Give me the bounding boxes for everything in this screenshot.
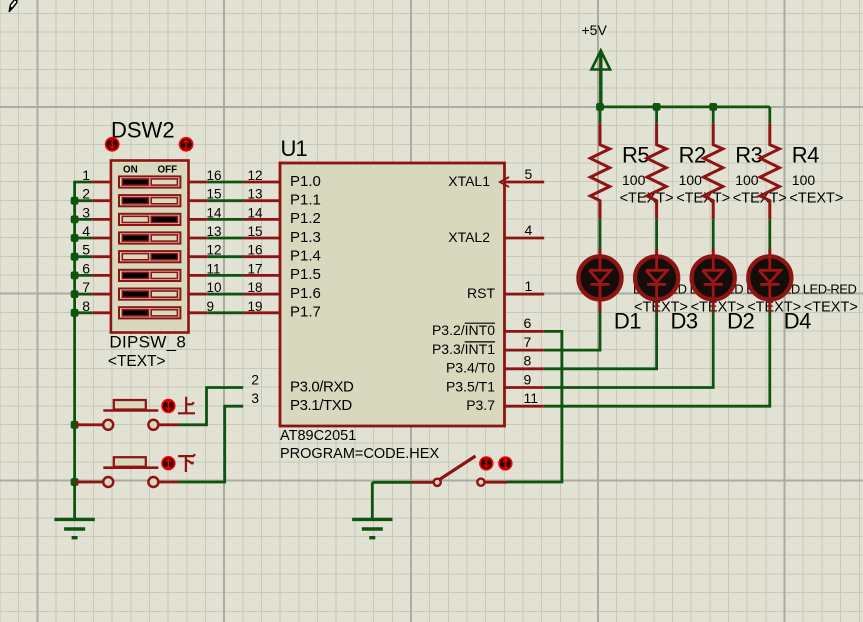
DSW2 switch element 7 [119,289,180,300]
svg-text:+5V: +5V [582,22,608,38]
svg-text:P3.4/T0: P3.4/T0 [446,360,495,376]
svg-text:P1.2: P1.2 [290,210,321,227]
U1 pin 6 stub [505,330,544,333]
wire bus to resistor R4 [768,107,771,123]
svg-text:RST: RST [467,285,495,301]
U1 pin 17 stub (P1.5) [243,274,280,277]
LED D1 diode symbol [589,256,610,300]
ground symbol left [54,519,94,537]
U1 pin 1 stub [505,293,545,296]
U1 pin 18 stub (P1.6) [243,293,280,296]
ground symbol center [352,519,392,537]
DSW2 pin 1 stub [92,181,111,184]
resistor R3 [704,123,723,219]
DSW2 switch element 3 [119,214,180,225]
U1 pin 14 stub (P1.2) [243,218,280,221]
wire power to bus [599,52,602,107]
U1 pin 13 stub (P1.1) [243,199,280,202]
button "shang (up)" right stub [159,423,179,426]
svg-text:100: 100 [792,172,816,188]
LED D1 body [578,256,621,299]
DSW2 switch element 8 [119,307,180,318]
LED D1 cathode stub [599,298,602,313]
wire bus to DSW2 pin 1 [73,181,92,184]
wire top horizontal bus [600,106,770,109]
LED D2 diode symbol [703,256,724,300]
svg-text:<TEXT>: <TEXT> [620,191,674,207]
DSW2 switch element 6 [119,270,180,281]
resistor R4 [760,123,779,219]
LED D3 cathode stub [655,298,658,313]
push button "xia (down)" terminal right [148,477,158,487]
DSW2 pin 2 stub [92,199,111,202]
wire LED D2 to U1 P3 pin [544,312,713,388]
U1 pin 15 stub (P1.3) [243,237,280,240]
LED D2 anode stub [712,249,715,258]
DSW2 switch element 2 [119,195,180,206]
svg-text:16: 16 [207,168,222,183]
svg-text:P1.1: P1.1 [290,192,321,209]
svg-text:D1: D1 [614,309,641,334]
DSW2 pin 13 stub right [189,237,208,240]
svg-text:3: 3 [82,204,90,220]
wire LED D4 to U1 P3 pin [544,312,770,406]
svg-text:7: 7 [82,279,90,295]
switch SW1 lever [440,456,476,480]
push button "xia (down)" terminal left [103,477,113,487]
LED D3 body [635,256,678,299]
DSW2 switch element 4 [119,232,180,243]
DSW2 pin 11 stub right [189,274,208,277]
svg-text:100: 100 [622,172,646,188]
DSW2 body [111,161,189,333]
svg-text:14: 14 [248,205,264,220]
DSW2 marker icon down [106,138,119,151]
push button "shang (up)" terminal left [103,420,113,430]
wire DSW2 pin 14 to U1 pin 14 [207,218,243,221]
svg-text:2: 2 [82,186,90,202]
svg-text:P1.3: P1.3 [290,229,321,246]
junction dot at x=713.2 [709,103,717,111]
DSW2 pin 12 stub right [189,255,208,258]
wire bus to DSW2 pin 7 [73,293,92,296]
push button "shang (up)" body [103,409,158,412]
button label "xia (down)" [178,454,195,472]
svg-text:12: 12 [248,168,263,183]
svg-text:P1.6: P1.6 [290,285,321,302]
wire bus to resistor R3 [712,107,715,123]
svg-text:R3: R3 [735,143,762,168]
svg-text:P1.5: P1.5 [290,266,321,283]
svg-text:12: 12 [207,243,222,258]
wire bus to DSW2 pin 3 [73,218,92,221]
LED D4 body [748,256,791,299]
LED D2 body [692,256,735,299]
DSW2 switch element 1 [119,176,180,187]
svg-text:P3.7: P3.7 [466,397,495,413]
LED D3 diode symbol [646,256,667,300]
wire bus to button "shang (up)" [75,423,103,426]
wire resistor R5 to LED [599,219,602,249]
svg-text:P3.3/INT1: P3.3/INT1 [432,341,495,357]
DSW2 pin 8 stub [92,311,111,314]
svg-text:6: 6 [82,260,90,276]
svg-text:P3.5/T1: P3.5/T1 [446,378,495,394]
svg-text:R5: R5 [622,143,649,168]
push button "shang (up)" terminal right [148,420,158,430]
LED D4 cathode stub [768,298,771,313]
svg-text:D4: D4 [784,309,811,334]
junction dot at x=600.0 [596,103,604,111]
svg-text:3: 3 [251,390,259,406]
svg-text:R4: R4 [792,143,819,168]
svg-text:13: 13 [248,187,263,202]
svg-text:ON: ON [123,165,138,176]
wire DSW2 pin 11 to U1 pin 17 [207,274,243,277]
U1 pin 12 stub (P1.0) [243,181,280,184]
svg-text:<TEXT>: <TEXT> [733,191,787,207]
svg-text:4: 4 [525,222,533,238]
svg-text:18: 18 [248,280,263,295]
svg-text:6: 6 [524,315,532,331]
cursor pencil [9,0,16,11]
svg-text:XTAL2: XTAL2 [448,229,490,245]
svg-text:11: 11 [524,390,539,406]
DSW2 pin 5 stub [92,255,111,258]
U1 pin 9 stub [505,386,544,389]
svg-text:P1.4: P1.4 [290,248,321,265]
svg-text:<TEXT>: <TEXT> [804,300,858,316]
wire LED D1 to U1 P3 pin [544,312,600,350]
svg-text:D3: D3 [671,309,698,334]
wire DSW2 pin 15 to U1 pin 13 [207,199,243,202]
switch terminal right [477,479,484,486]
svg-text:5: 5 [82,242,90,258]
button "shang (up)" marker icon [162,400,175,413]
DSW2 pin 14 stub right [189,218,208,221]
LED D4 diode symbol [759,256,780,300]
svg-text:7: 7 [524,334,532,350]
wire DSW2 pin 16 to U1 pin 12 [207,181,243,184]
wire resistor R2 to LED [655,219,658,249]
switch right stub [485,481,508,484]
wire bus to DSW2 pin 5 [73,255,92,258]
svg-text:AT89C2051: AT89C2051 [280,428,356,444]
svg-text:9: 9 [524,371,532,387]
switch marker icon down [480,457,493,470]
wire DSW2 pin 9 to U1 pin 19 [207,311,243,314]
wire DSW2 pin 10 to U1 pin 18 [207,293,243,296]
svg-text:P3.1/TXD: P3.1/TXD [290,397,352,414]
wire button shang to U1 pin 2 (P3.0/RXD) [178,388,243,425]
svg-text:P1.0: P1.0 [290,173,321,190]
button "xia (down)" marker icon [162,457,175,470]
U1 clock arrow on XTAL1 [500,177,509,187]
svg-text:1: 1 [82,167,90,183]
wire ground to switch [372,481,412,484]
op U1 AT89C2051 microcontroller body [280,163,505,426]
U1 pin 11 stub [505,405,544,408]
DSW2 pin 9 stub right [189,311,208,314]
LED D1 anode stub [599,249,602,258]
DSW2 pin 16 stub right [189,181,208,184]
wire ground drop (center) [371,482,374,519]
U1 pin 4 stub [505,237,545,240]
DSW2 pin 15 stub right [189,199,208,202]
DSW2 pin 4 stub [92,237,111,240]
wire bus to DSW2 pin 6 [73,274,92,277]
DSW2 switch element 5 [119,251,180,262]
DSW2 pin 10 stub right [189,293,208,296]
wire resistor R3 to LED [712,219,715,249]
svg-text:15: 15 [207,187,222,202]
svg-text:1: 1 [525,278,533,294]
svg-text:8: 8 [524,353,532,369]
DSW2 pin 6 stub [92,274,111,277]
svg-text:8: 8 [82,298,90,314]
svg-text:15: 15 [248,224,263,239]
DSW2 pin 3 stub [92,218,111,221]
svg-text:<TEXT>: <TEXT> [789,191,843,207]
resistor R5 [590,123,609,219]
wire bus to DSW2 pin 4 [73,237,92,240]
LED D4 anode stub [768,249,771,258]
svg-text:DIPSW_8: DIPSW_8 [109,333,186,352]
U1 pin 8 stub [505,367,544,370]
svg-text:13: 13 [207,224,222,239]
svg-text:P1.7: P1.7 [290,304,321,321]
wire DSW2 pin 12 to U1 pin 16 [207,255,243,258]
svg-text:D2: D2 [727,309,754,334]
resistor R2 [647,123,666,219]
svg-text:OFF: OFF [158,165,178,176]
power +5V arrow symbol [592,51,611,70]
U1 pin 5 stub [505,181,545,184]
switch left stub [412,481,434,484]
wire DSW2 pin 13 to U1 pin 15 [207,237,243,240]
svg-text:<TEXT>: <TEXT> [108,353,166,370]
junction dots on left bus [71,197,79,205]
svg-text:10: 10 [207,280,222,295]
DSW2 pin 7 stub [92,293,111,296]
LED D3 anode stub [655,249,658,258]
wire bus to resistor R5 [599,107,602,123]
svg-text:P3.2/INT0: P3.2/INT0 [432,322,495,338]
button "xia (down)" right stub [159,481,179,484]
DSW2 marker icon up [180,138,193,151]
wire bus to resistor R2 [655,107,658,123]
svg-text:17: 17 [248,261,263,276]
svg-text:PROGRAM=CODE.HEX: PROGRAM=CODE.HEX [280,446,439,462]
button label "shang (up)" [178,397,195,414]
push button "xia (down)" body [103,466,158,469]
svg-text:5: 5 [525,166,533,182]
svg-text:<TEXT>: <TEXT> [676,191,730,207]
svg-text:LED-RED: LED-RED [803,282,857,297]
wire bus to DSW2 pin 2 [73,199,92,202]
U1 pin 7 stub [505,349,544,352]
wire resistor R4 to LED [768,219,771,249]
wire switch to U1 pin 6 (P3.2/INT0) [507,331,562,482]
svg-text:14: 14 [207,205,223,220]
svg-text:P3.0/RXD: P3.0/RXD [290,378,354,395]
LED D2 cathode stub [712,298,715,313]
svg-text:11: 11 [207,261,221,276]
svg-text:9: 9 [207,299,215,314]
wire LED D3 to U1 P3 pin [544,312,657,369]
wire bus to button "xia (down)" [75,481,103,484]
svg-text:R2: R2 [679,143,706,168]
svg-text:100: 100 [735,172,759,188]
svg-text:2: 2 [251,371,259,387]
svg-text:16: 16 [248,243,263,258]
svg-text:DSW2: DSW2 [111,118,175,143]
wire button xia to U1 pin 3 (P3.1/TXD) [178,406,243,482]
U1 pin 16 stub (P1.4) [243,255,280,258]
switch terminal left [434,479,441,486]
svg-text:U1: U1 [281,136,308,161]
svg-text:XTAL1: XTAL1 [448,173,490,189]
svg-text:4: 4 [82,223,90,239]
svg-text:100: 100 [679,172,703,188]
junction dot at x=656.6 [653,103,661,111]
switch marker icon up [499,457,512,470]
U1 pin 19 stub (P1.7) [243,311,280,314]
wire bus to DSW2 pin 8 [73,311,92,314]
svg-text:19: 19 [248,299,263,314]
wire left vertical bus [73,182,76,519]
